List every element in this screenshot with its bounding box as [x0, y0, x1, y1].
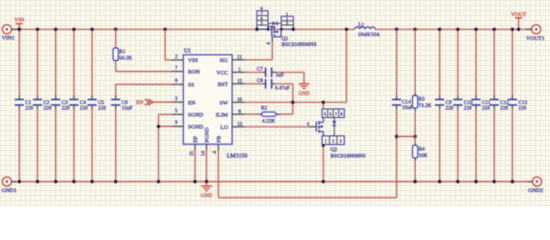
svg-text:15: 15 [190, 151, 195, 157]
svg-text:5: 5 [324, 112, 326, 117]
svg-text:226: 226 [25, 105, 33, 111]
svg-text:1nF: 1nF [276, 72, 284, 78]
svg-text:Q1: Q1 [282, 36, 289, 42]
svg-text:56.2K: 56.2K [119, 56, 132, 62]
svg-text:3: 3 [286, 20, 288, 25]
svg-text:226: 226 [464, 105, 472, 111]
svg-text:SGND: SGND [188, 125, 203, 131]
svg-text:VCC: VCC [216, 71, 228, 77]
svg-text:C7: C7 [257, 66, 264, 72]
svg-text:226: 226 [43, 105, 51, 111]
svg-text:2: 2 [175, 55, 178, 60]
svg-text:73.2K: 73.2K [419, 103, 432, 109]
svg-text:14: 14 [201, 151, 206, 157]
svg-text:7: 7 [175, 66, 178, 71]
svg-text:10uH/10A: 10uH/10A [358, 32, 381, 38]
svg-text:10: 10 [237, 98, 243, 103]
svg-text:226: 226 [446, 105, 454, 111]
svg-text:R3: R3 [419, 97, 426, 103]
svg-text:12: 12 [237, 80, 243, 85]
svg-text:U1: U1 [184, 49, 191, 55]
svg-text:FB: FB [217, 135, 223, 142]
svg-text:EP: EP [193, 136, 199, 143]
svg-text:GND1: GND1 [2, 188, 17, 194]
svg-text:0.47uF: 0.47uF [275, 86, 290, 92]
svg-text:10K: 10K [419, 153, 428, 159]
svg-text:4.22K: 4.22K [262, 118, 275, 124]
svg-text:6: 6 [329, 112, 331, 117]
svg-text:C8: C8 [257, 78, 264, 84]
svg-text:R2: R2 [261, 105, 268, 111]
svg-text:10nF: 10nF [402, 105, 413, 111]
svg-text:LO: LO [220, 125, 227, 131]
svg-text:ILIM: ILIM [216, 112, 228, 118]
svg-text:EN: EN [136, 100, 143, 106]
svg-text:5: 5 [261, 21, 263, 26]
svg-text:11: 11 [237, 56, 242, 61]
svg-text:4: 4 [213, 151, 218, 154]
svg-text:226: 226 [80, 105, 88, 111]
svg-text:7: 7 [335, 112, 337, 117]
svg-text:226: 226 [98, 105, 106, 111]
svg-text:LM3150: LM3150 [227, 153, 248, 159]
svg-text:1: 1 [325, 139, 327, 144]
svg-text:SS: SS [188, 83, 194, 89]
svg-text:R1: R1 [119, 49, 126, 55]
svg-text:8: 8 [340, 112, 342, 117]
svg-text:GND: GND [298, 91, 310, 97]
svg-text:GND: GND [201, 193, 213, 199]
svg-text:RON: RON [188, 70, 200, 76]
svg-text:SGND: SGND [188, 113, 203, 119]
svg-text:BSC016N06NS: BSC016N06NS [282, 42, 317, 48]
svg-text:3: 3 [340, 139, 342, 144]
svg-text:GND2: GND2 [528, 188, 543, 194]
svg-text:R4: R4 [419, 147, 426, 153]
svg-text:2: 2 [332, 139, 334, 144]
svg-text:3: 3 [175, 97, 178, 102]
svg-text:VIN1: VIN1 [2, 35, 15, 41]
svg-text:L1: L1 [358, 22, 364, 28]
svg-text:15nF: 15nF [122, 105, 133, 111]
svg-text:BST: BST [218, 82, 229, 88]
svg-text:5: 5 [175, 109, 178, 114]
svg-text:BSC016N06NS: BSC016N06NS [331, 153, 366, 159]
svg-text:13: 13 [237, 123, 243, 128]
svg-text:VIN: VIN [14, 18, 24, 24]
svg-text:SW: SW [220, 101, 229, 107]
svg-text:EN: EN [188, 100, 195, 106]
svg-text:VOUT: VOUT [511, 12, 527, 18]
svg-text:6: 6 [175, 79, 178, 84]
svg-text:PGND: PGND [205, 127, 211, 142]
svg-text:226: 226 [500, 105, 508, 111]
svg-text:9: 9 [175, 121, 178, 126]
svg-text:VIN: VIN [188, 58, 198, 64]
svg-text:226: 226 [518, 105, 526, 111]
svg-text:HG: HG [220, 58, 228, 64]
svg-text:Q2: Q2 [331, 147, 338, 153]
svg-text:VOUT1: VOUT1 [526, 36, 545, 42]
svg-text:226: 226 [62, 105, 70, 111]
svg-text:4: 4 [267, 42, 272, 45]
svg-text:226: 226 [482, 105, 490, 111]
